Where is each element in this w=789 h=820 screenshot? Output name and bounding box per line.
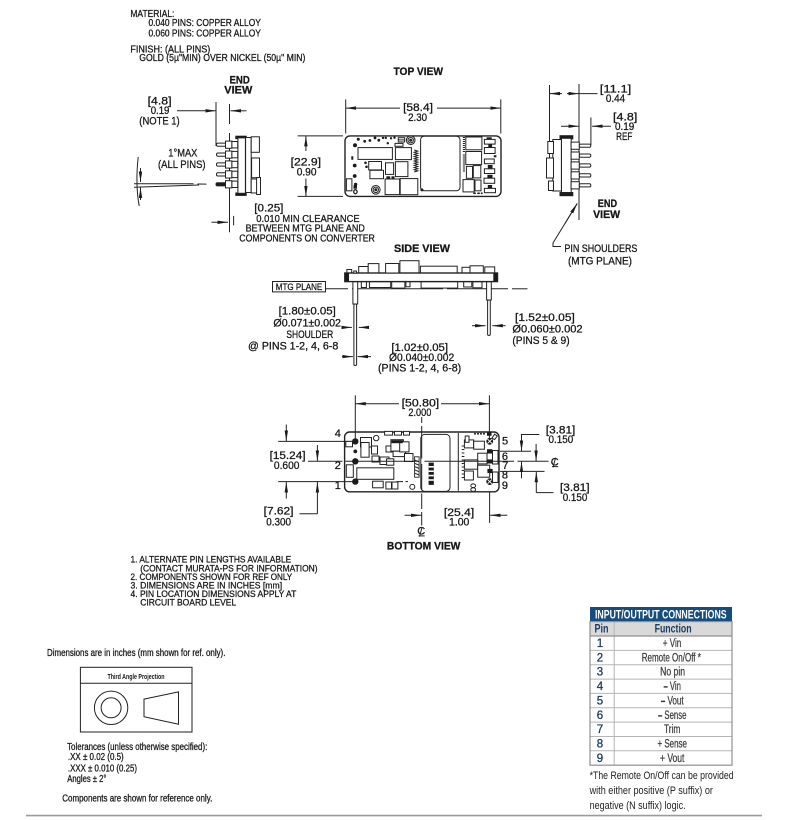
svg-text:5: 5: [597, 695, 603, 707]
svg-text:VIEW: VIEW: [593, 209, 621, 221]
svg-text:1: 1: [335, 480, 341, 492]
bottom separator line: [26, 815, 762, 817]
svg-text:INPUT/OUTPUT CONNECTIONS: INPUT/OUTPUT CONNECTIONS: [595, 608, 727, 622]
bottom view dim 7.62 text: [264, 506, 294, 529]
left end view pin axis lines: [134, 184, 207, 187]
top view coil zigzag: [414, 150, 418, 172]
svg-text:6: 6: [597, 710, 603, 722]
right end view title: [593, 198, 621, 221]
left end view angle arc and arrows: [137, 157, 141, 206]
side view shoulder dim arrows: [342, 326, 369, 328]
top view dim 58.4 text: [403, 102, 433, 124]
top view transformer: [358, 148, 392, 160]
bottom view dim 25.4 text: [444, 507, 474, 529]
top view shield corner dot: [420, 188, 423, 191]
bottom view ovals: [471, 484, 476, 492]
top view small black parts left: [354, 176, 395, 188]
mtg plane label box: [273, 282, 326, 293]
svg-text:MTG PLANE: MTG PLANE: [276, 282, 323, 293]
svg-text:TOP VIEW: TOP VIEW: [394, 66, 444, 78]
io table column titles: [595, 624, 692, 636]
bottom view section divider: [457, 433, 459, 491]
bottom view dim 50.80 text: [402, 397, 440, 419]
right end view pcb black cap top: [560, 135, 574, 139]
bottom view dark band: [392, 440, 403, 443]
bottom view centerline symbol right: [551, 456, 559, 468]
svg-text:.XX ± 0.02 (0.5): .XX ± 0.02 (0.5): [68, 752, 124, 763]
svg-text:Third Angle Projection: Third Angle Projection: [108, 674, 165, 681]
svg-text:PIN SHOULDERS: PIN SHOULDERS: [564, 243, 637, 255]
top view tiny ring bottom left: [354, 190, 357, 194]
left end view pins: [216, 141, 238, 188]
bottom view dim 3.81 bottom arrows: [536, 444, 553, 493]
bottom view pin col extension line: [489, 492, 491, 523]
top view dim 58.4 dimension line: [346, 107, 501, 109]
bottom view pin4 line: [278, 440, 355, 442]
bottom view left components: [346, 431, 413, 489]
numbered notes: [131, 555, 318, 609]
right end view dim 4.8 text: [613, 111, 637, 143]
svg-text:[1.52±0.05]: [1.52±0.05]: [515, 312, 575, 324]
svg-text:+ Vout: + Vout: [660, 753, 685, 765]
top view screw ring top: [406, 136, 415, 145]
top view dim 58.4 extension lines: [346, 99, 501, 133]
svg-text:Trim: Trim: [664, 724, 681, 736]
bottom view pin labels left: [335, 428, 341, 492]
svg-text:9: 9: [502, 480, 508, 492]
side view pcb bar: [345, 273, 498, 282]
svg-text:Ø0.060±0.002: Ø0.060±0.002: [512, 324, 582, 336]
svg-text:4: 4: [597, 681, 604, 693]
svg-text:GOLD (5µ"MIN) OVER NICKEL (50µ: GOLD (5µ"MIN) OVER NICKEL (50µ" MIN): [139, 53, 305, 64]
svg-text:Function: Function: [655, 624, 692, 636]
top view solder dots: [351, 137, 395, 187]
top view dim 22.9 text: [291, 157, 321, 179]
svg-text:– Vin: – Vin: [663, 681, 681, 693]
svg-text:0.040 PINS: COPPER ALLOY: 0.040 PINS: COPPER ALLOY: [149, 18, 262, 29]
top view dim 22.9 dimension line: [305, 136, 307, 197]
side view right pin dim text: [512, 312, 582, 347]
side view pin dia dim arrows: [342, 356, 371, 358]
svg-text:1: 1: [597, 638, 603, 650]
side view left pin: [353, 282, 358, 366]
svg-text:+ Sense: + Sense: [657, 739, 687, 751]
top view left components: [346, 138, 417, 195]
svg-text:(ALL PINS): (ALL PINS): [158, 159, 206, 171]
svg-text:(MTG PLANE): (MTG PLANE): [568, 255, 632, 267]
top view dim 22.9 extension lines: [298, 136, 343, 197]
io table subheader row: [590, 622, 732, 636]
bottom view dim 3.81 top text: [546, 424, 576, 446]
svg-text:Tolerances (unless otherwise s: Tolerances (unless otherwise specified):: [67, 742, 207, 753]
left end view clearance second line: [233, 216, 235, 225]
bottom view pins right: [486, 438, 493, 485]
left end view mtg plane line: [229, 104, 231, 232]
bottom view corner wedge: [492, 434, 498, 439]
svg-text:7: 7: [597, 724, 603, 736]
right end view extension line 4.8: [590, 118, 592, 146]
right end view component stack: [547, 140, 562, 192]
svg-text:VIEW: VIEW: [224, 85, 253, 97]
svg-text:2.000: 2.000: [408, 407, 431, 419]
third angle projection circles: [94, 691, 127, 724]
right end view pcb black cap bottom: [560, 192, 574, 196]
svg-text:Ø0.071±0.002: Ø0.071±0.002: [273, 318, 341, 330]
left end view pcb black cap top: [235, 136, 246, 139]
bottom view coil hatch: [415, 457, 420, 477]
svg-text:0.90: 0.90: [297, 167, 317, 179]
side view shoulder dim text: [248, 306, 341, 353]
left end view clearance arrow: [212, 221, 229, 223]
side view right pin: [487, 282, 492, 336]
bottom view dim 7.62 arrows: [300, 445, 318, 514]
svg-text:Angles ± 2°: Angles ± 2°: [67, 774, 106, 785]
bottom view pin6 line: [500, 450, 531, 452]
bottom view dim 15.24 text: [270, 450, 306, 472]
top view right black parts: [473, 137, 496, 194]
top view board outline: [345, 136, 501, 197]
right end view dim 11.1 arrows: [550, 93, 598, 95]
io table functions: [642, 638, 702, 765]
bottom view top edge marks: [474, 432, 492, 436]
bottom view horizontal centerline: [308, 460, 549, 462]
top view connector inner line: [398, 139, 404, 141]
left end view dim 4.8 text: [139, 96, 179, 128]
svg-text:@ PINS 1-2, 4, 6-8: @ PINS 1-2, 4, 6-8: [248, 340, 338, 352]
left end view title: [224, 75, 253, 97]
svg-text:1.00: 1.00: [449, 517, 469, 529]
right end view mtg plane line: [578, 84, 580, 220]
bottom view top circle: [374, 435, 379, 440]
left end view dim 4.8 arrows: [177, 110, 247, 112]
pin shoulders label: [564, 243, 637, 267]
svg-text:0.300: 0.300: [266, 517, 291, 529]
side view top components: [347, 261, 495, 274]
right end view extension line 11.1: [549, 85, 551, 177]
svg-text:REF: REF: [616, 131, 632, 143]
side view pin dia dim text: [378, 342, 461, 375]
bottom view cover comb: [429, 463, 434, 485]
bottom view pin1 inner dashes: [397, 481, 409, 483]
left end view pcb bar: [238, 138, 246, 193]
side view mtg plane line: [326, 288, 528, 290]
io table outer border: [590, 622, 732, 766]
right end view pins: [571, 142, 591, 189]
bottom view right components: [464, 440, 498, 483]
svg-text:8: 8: [597, 739, 603, 751]
bottom view shield cover: [421, 434, 450, 491]
io table footnote: [589, 770, 734, 812]
svg-text:0.150: 0.150: [563, 492, 588, 504]
top view pin comb: [463, 138, 465, 172]
svg-text:[1.80±0.05]: [1.80±0.05]: [279, 306, 336, 318]
material/finish note text: [130, 9, 305, 64]
left end view pcb black cap bottom: [235, 193, 246, 196]
svg-text:1°MAX: 1°MAX: [168, 148, 198, 160]
svg-text:– Vout: – Vout: [661, 695, 685, 707]
svg-text:CIRCUIT BOARD LEVEL: CIRCUIT BOARD LEVEL: [140, 598, 237, 609]
third angle projection cone: [144, 692, 179, 724]
svg-text:.XXX ± 0.010 (0.25): .XXX ± 0.010 (0.25): [68, 763, 137, 774]
bottom view dim 50.80 dimension line: [355, 403, 489, 405]
bottom view small top rect right: [465, 436, 469, 442]
left end view 1 degree note: [158, 148, 206, 171]
svg-text:0.150: 0.150: [549, 434, 574, 446]
svg-text:– Sense: – Sense: [658, 710, 687, 722]
io table grid: [590, 622, 732, 766]
bottom view board outline: [345, 432, 499, 492]
svg-text:+ Vin: + Vin: [663, 638, 682, 650]
bottom view vertical centerline: [421, 417, 423, 526]
left end view clearance text: [239, 202, 375, 244]
right end view dim 4.8 arrows: [561, 125, 611, 127]
left end view dim 4.8 extension line: [215, 102, 217, 146]
svg-text:0.44: 0.44: [606, 93, 625, 105]
svg-text:(PINS 1-2, 4, 6-8): (PINS 1-2, 4, 6-8): [378, 363, 461, 375]
svg-text:3: 3: [597, 667, 603, 679]
left end view component stack: [246, 137, 261, 195]
bottom view pin1 line: [278, 481, 355, 483]
io table pin numbers: [597, 638, 604, 765]
third angle projection box: [80, 667, 192, 732]
svg-text:9: 9: [597, 753, 603, 765]
svg-text:COMPONENTS ON CONVERTER: COMPONENTS ON CONVERTER: [239, 233, 375, 244]
svg-text:Dimensions are in inches (mm s: Dimensions are in inches (mm shown for r…: [47, 648, 225, 659]
side view pcb end caps: [345, 273, 498, 282]
svg-text:2.30: 2.30: [408, 112, 427, 124]
svg-text:[0.25]: [0.25]: [254, 202, 283, 214]
svg-text:BOTTOM VIEW: BOTTOM VIEW: [387, 541, 461, 553]
bottom view small circle: [410, 484, 415, 489]
svg-text:0.600: 0.600: [274, 460, 300, 472]
top view right components: [463, 137, 496, 193]
bottom view right comb: [462, 446, 465, 478]
side view lower components: [361, 281, 482, 288]
svg-text:No pin: No pin: [660, 667, 685, 679]
top view screw ring bottom: [372, 186, 381, 195]
svg-text:4: 4: [335, 428, 341, 440]
svg-text:with either positive (P suffix: with either positive (P suffix) or: [589, 785, 714, 797]
svg-text:5: 5: [502, 436, 508, 448]
bottom view centerline symbol bottom: [417, 526, 425, 538]
bottom view transformer: [357, 468, 394, 480]
io table header bar: [590, 607, 732, 622]
right end view pcb bar: [561, 138, 571, 192]
svg-text:Components are shown for refer: Components are shown for reference only.: [62, 793, 212, 804]
svg-text:SIDE VIEW: SIDE VIEW: [394, 243, 451, 255]
side view right pin dim arrows: [472, 325, 506, 327]
top view shield can: [421, 136, 460, 191]
svg-text:0.060 PINS: COPPER ALLOY: 0.060 PINS: COPPER ALLOY: [149, 28, 262, 39]
svg-text:2: 2: [597, 652, 603, 664]
svg-text:2: 2: [335, 460, 341, 472]
svg-text:*The Remote On/Off can be prov: *The Remote On/Off can be provided: [590, 770, 734, 782]
svg-text:Pin: Pin: [595, 624, 609, 636]
svg-text:(PINS 5 & 9): (PINS 5 & 9): [512, 335, 569, 347]
io table body background: [590, 636, 732, 765]
bottom view dim 15.24 arrows: [285, 425, 287, 499]
bottom view dim 3.81 bottom text: [560, 482, 590, 504]
svg-text:Remote On/Off *: Remote On/Off *: [642, 652, 702, 664]
bottom view pin labels right: [502, 436, 509, 492]
bottom view pins left: [352, 438, 358, 485]
pin shoulders leader arrow: [553, 204, 577, 247]
bottom view pin8 line: [500, 470, 545, 472]
bottom view dim 3.81 top elbow: [521, 435, 539, 479]
bottom view dim 25.4 arrows: [405, 514, 508, 516]
tolerances text: [67, 742, 207, 785]
bottom view dim 50.80 extension lines: [355, 395, 489, 441]
svg-text:negative (N suffix) logic.: negative (N suffix) logic.: [590, 800, 686, 812]
svg-text:(NOTE 1): (NOTE 1): [139, 115, 179, 127]
right end view dim 11.1 text: [600, 84, 632, 106]
